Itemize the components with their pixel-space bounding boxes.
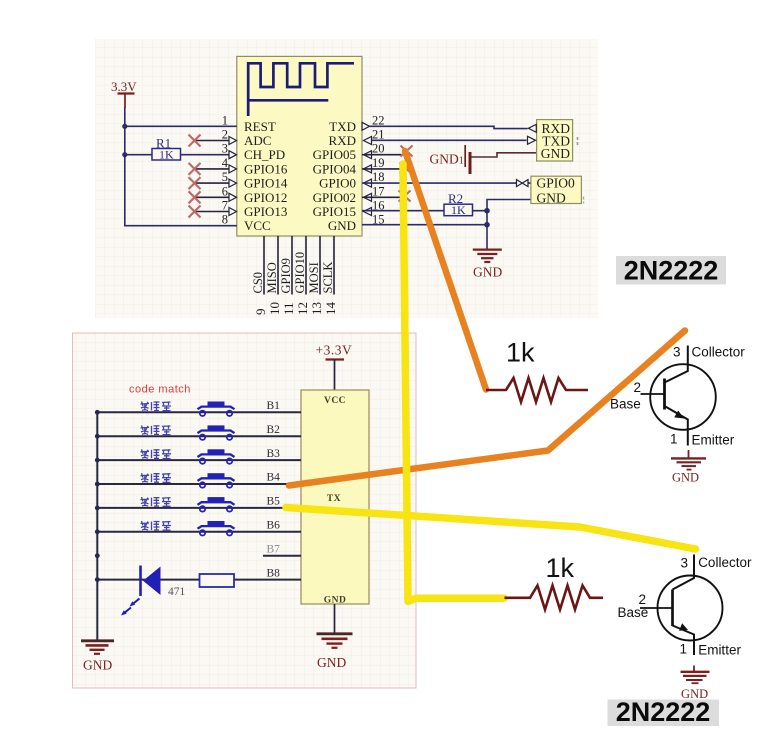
svg-text:GND1: GND1 (430, 152, 464, 167)
wire row B1 (97, 411, 301, 413)
antenna meander (module artwork) (248, 63, 354, 116)
svg-text:3: 3 (673, 345, 681, 360)
svg-text:1: 1 (679, 642, 687, 657)
port arrow TXD (528, 136, 536, 144)
svg-text:B1: B1 (267, 400, 281, 412)
svg-text:20: 20 (372, 142, 385, 156)
svg-text:GPIO05: GPIO05 (313, 147, 356, 162)
svg-text:GPIO16: GPIO16 (244, 161, 288, 176)
no-connect X pin2 (189, 135, 201, 147)
LED D1 (139, 566, 142, 597)
resistor R2 (444, 204, 473, 216)
svg-text:GPIO14: GPIO14 (244, 176, 288, 191)
wire pin21 to TXD port (372, 139, 527, 141)
wire chip GND drop (334, 604, 336, 633)
LED emission arrows (121, 599, 140, 616)
chip TX body (301, 390, 369, 604)
svg-text:B8: B8 (267, 567, 281, 579)
wire pin2 stub (196, 140, 229, 142)
wire row B2 (97, 435, 301, 437)
svg-text:RXD: RXD (329, 133, 356, 148)
wire GND1 to port GND (472, 153, 537, 157)
pushbutton S4 (198, 473, 235, 487)
port marks (577, 137, 579, 145)
svg-text:Collector: Collector (692, 345, 746, 360)
wire pin3 CH_PD (125, 154, 229, 156)
pushbutton S5 (198, 497, 235, 511)
svg-text:8: 8 (222, 213, 228, 227)
svg-text:1: 1 (670, 432, 678, 447)
grid area top schematic (95, 39, 598, 318)
pin arrows left side (229, 137, 237, 216)
svg-text:471: 471 (168, 586, 186, 598)
port mark gpio0 (583, 197, 585, 204)
resistor 471 (200, 574, 235, 587)
transistor Q2 (640, 555, 723, 656)
no-connect X pin7 (189, 206, 201, 218)
wire GPIO0 GND drop (487, 200, 531, 249)
ground symbol bottom-left (96, 639, 98, 641)
svg-text:10: 10 (267, 302, 282, 315)
svg-text:SCLK: SCLK (321, 262, 335, 294)
ground below Q2 (681, 666, 710, 684)
svg-text:MOSI: MOSI (307, 262, 321, 293)
port connector RXD/TXD/GND (537, 120, 573, 161)
svg-text:GPIO0: GPIO0 (319, 176, 356, 191)
svg-text:1k: 1k (506, 338, 535, 368)
label 2N2222 (Q2) (608, 700, 720, 727)
wire pin19 stub (362, 168, 404, 170)
ground symbol below R2 (473, 250, 502, 262)
pin names left column (244, 119, 288, 233)
svg-text:GPIO12: GPIO12 (244, 190, 287, 205)
wire R2 to junction (473, 210, 488, 212)
bottom pin names rotated (251, 252, 335, 294)
svg-text:GPIO02: GPIO02 (313, 190, 356, 205)
wire orange GPIO05 to 1k (405, 151, 486, 390)
svg-text:B6: B6 (267, 520, 281, 532)
svg-text:3: 3 (680, 555, 688, 570)
svg-text:2N2222: 2N2222 (624, 256, 719, 286)
svg-text:B7: B7 (267, 543, 281, 555)
pushbutton S2 (198, 425, 235, 439)
svg-text:Emitter: Emitter (692, 433, 735, 448)
svg-text:2N2222: 2N2222 (616, 697, 711, 727)
wire row B3 (97, 459, 301, 461)
node junction pin3 (122, 152, 127, 157)
svg-text:ADC: ADC (244, 133, 271, 148)
svg-text:+3.3V: +3.3V (316, 343, 353, 358)
svg-text:2: 2 (633, 380, 641, 395)
svg-text:1k: 1k (546, 553, 575, 583)
svg-text:GPIO0: GPIO0 (537, 175, 576, 190)
svg-text:GPIO15: GPIO15 (313, 204, 356, 219)
svg-text:code match: code match (129, 384, 191, 396)
svg-text:9: 9 (253, 309, 268, 316)
svg-text:Emitter: Emitter (698, 643, 741, 658)
svg-text:CH_PD: CH_PD (244, 147, 285, 162)
svg-text:1K: 1K (159, 148, 174, 162)
wire row B8 (97, 579, 301, 581)
svg-text:19: 19 (372, 156, 385, 170)
transistor Q1 (641, 346, 716, 446)
wire row B6 (97, 531, 301, 533)
port connector GPIO0/GND (531, 176, 582, 203)
pushbutton S6 (198, 521, 235, 536)
svg-text:GND: GND (672, 471, 699, 485)
pin arrows right side (362, 122, 372, 215)
node junction pin1 (122, 124, 127, 129)
wire row B7 (263, 555, 301, 557)
labels B1-B8 (267, 400, 281, 579)
svg-text:3.3V: 3.3V (111, 79, 137, 94)
svg-text:B2: B2 (267, 424, 281, 436)
wire row B4 (97, 483, 301, 485)
wire left bus (96, 412, 98, 639)
svg-text:GND: GND (537, 191, 566, 206)
svg-text:1K: 1K (451, 203, 466, 217)
svg-text:GND: GND (317, 655, 346, 670)
svg-text:B5: B5 (267, 496, 281, 508)
svg-text:VCC: VCC (244, 218, 271, 233)
module bottom pins 9-14 (264, 236, 334, 295)
no-connect X pin6 (189, 191, 201, 203)
antenna underline (248, 99, 328, 102)
wire yellow B5 to Q2 collector (286, 508, 696, 550)
svg-text:REST: REST (244, 119, 276, 134)
svg-text:1: 1 (222, 113, 228, 127)
no-connect X pin17 (399, 191, 411, 202)
svg-text:GPIO9: GPIO9 (279, 258, 293, 293)
svg-text:6: 6 (222, 184, 228, 198)
svg-text:7: 7 (222, 199, 228, 213)
svg-text:Base: Base (618, 605, 649, 620)
node junction R2 (484, 208, 490, 214)
pushbutton S3 (198, 449, 235, 463)
svg-text:3: 3 (222, 142, 228, 156)
wire pin6 stub (196, 196, 229, 198)
ground below Q1 (671, 450, 706, 470)
wire pin17 stub (362, 196, 404, 198)
svg-text:GND: GND (328, 218, 356, 233)
svg-text:11: 11 (281, 302, 296, 315)
wire pin4 stub (196, 168, 229, 170)
bottom pin numbers rotated (253, 302, 338, 316)
svg-text:21: 21 (372, 128, 385, 142)
no-connect X pin5 (189, 177, 201, 189)
svg-text:5: 5 (222, 170, 228, 184)
no-connect X pin20 (401, 146, 413, 157)
wire pin15 to junction (362, 224, 487, 226)
svg-text:GPIO10: GPIO10 (293, 252, 307, 294)
wire pin5 stub (196, 182, 229, 184)
svg-text:GPIO13: GPIO13 (244, 204, 287, 219)
resistor R1 (152, 149, 181, 161)
ground symbol below chip (317, 634, 353, 648)
svg-text:4: 4 (222, 156, 229, 170)
svg-text:TXD: TXD (329, 119, 356, 134)
wire VCC drop (334, 360, 336, 391)
wire pin22 to RXD port (370, 126, 528, 128)
pin numbers left 1-8 (222, 113, 229, 226)
bus junction dots (95, 410, 100, 582)
svg-text:TX: TX (327, 494, 341, 504)
no-connect X pin4 (189, 163, 201, 175)
wire left bus (125, 107, 237, 226)
wire yellow GPIO04 down to 1k (403, 164, 504, 602)
wire pin1 REST (125, 125, 237, 127)
pushbutton S1 (198, 402, 235, 416)
svg-text:GND: GND (473, 265, 502, 280)
svg-text:GND: GND (541, 146, 570, 161)
svg-text:Base: Base (610, 397, 641, 412)
wire orange B4 to Q1 collector (289, 331, 685, 486)
wire pin16 to R2 (362, 210, 444, 212)
pin numbers right 22-15 (372, 113, 385, 226)
svg-text:12: 12 (295, 302, 310, 315)
svg-text:2: 2 (222, 128, 228, 142)
svg-text:Collector: Collector (698, 555, 752, 570)
bowtie glyph pin18 (517, 180, 529, 187)
svg-text:GPIO04: GPIO04 (313, 161, 357, 176)
port arrow RXD (528, 124, 536, 132)
pin names right column (313, 119, 357, 233)
svg-text:13: 13 (309, 302, 324, 315)
node junction pin15 (484, 222, 490, 228)
wire pin18 to GPIO0 port (362, 182, 531, 184)
label 2N2222 (Q1) (616, 256, 726, 285)
svg-text:MISO: MISO (265, 262, 279, 293)
svg-text:CS0: CS0 (251, 272, 265, 294)
svg-text:B4: B4 (267, 472, 281, 484)
svg-text:GND: GND (83, 658, 112, 673)
svg-text:14: 14 (323, 302, 338, 316)
no-connect X pin19 (400, 163, 412, 174)
svg-text:VCC: VCC (324, 396, 346, 406)
wire pin20 stub (362, 154, 405, 156)
svg-text:17: 17 (372, 184, 385, 198)
svg-text:22: 22 (372, 113, 385, 127)
grid area bottom schematic (73, 333, 417, 688)
wire pin7 stub (196, 211, 229, 213)
svg-text:B3: B3 (267, 448, 281, 460)
svg-text:18: 18 (372, 170, 385, 184)
wire row B5 (97, 507, 301, 509)
ESP module U1 body (237, 56, 362, 236)
